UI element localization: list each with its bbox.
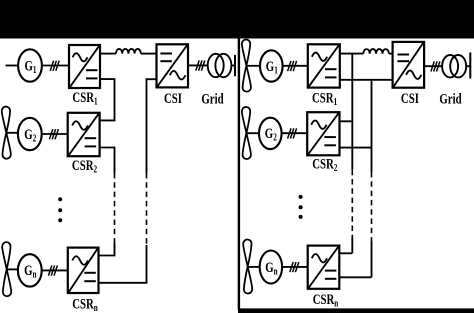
inductor (left dc link) xyxy=(116,49,141,54)
wind turbine blades (right row2) xyxy=(242,107,251,159)
wire: blades hub to Gn xyxy=(7,268,18,270)
vertical dots (left) xyxy=(58,197,62,222)
wire: stub left of G1 xyxy=(6,65,19,67)
converter CSR1 (right) xyxy=(308,44,340,87)
three-phase slashes (right grid) xyxy=(431,61,440,71)
wire: inductor to CSI xyxy=(141,53,157,55)
converter CSRn (right) xyxy=(308,246,340,289)
wire: CSRn top out to bus A (right) xyxy=(339,252,352,254)
wire: CSI bottom in down to CSRn bottom out (dashed middle) xyxy=(99,79,157,283)
grid bus bar (left) xyxy=(234,55,236,76)
wire: Gn to CSRn xyxy=(42,269,68,271)
three-phase slashes (left row2) xyxy=(49,129,58,139)
three-phase slashes (right row2) xyxy=(288,128,297,138)
wire: blades hub to G1 (right) xyxy=(246,65,260,67)
converter CSR2 (right) xyxy=(307,112,339,155)
label CSI (left) xyxy=(164,89,182,106)
wind turbine blades (right row1) xyxy=(242,40,251,92)
svg-text:Grid: Grid xyxy=(439,90,462,107)
three-phase slashes (left row3) xyxy=(48,266,57,276)
wire: blades hub to G2 (right) xyxy=(246,132,259,134)
label CSRn (left) xyxy=(72,295,98,313)
wire: G2 to CSR2 xyxy=(42,133,68,135)
right panel left border xyxy=(238,38,240,310)
generator Gn (right) xyxy=(260,251,282,284)
wire: CSRn bottom out to bus B (right) xyxy=(339,276,371,278)
wire: blades hub to G2 xyxy=(6,132,18,134)
label Grid (right) xyxy=(439,90,462,107)
wire: Gn to CSRn (right) xyxy=(282,266,308,268)
three-phase slashes (right row1) xyxy=(288,61,297,71)
generator Gn (left) xyxy=(18,254,42,286)
wire: CSR1 top out to inductor xyxy=(100,53,116,55)
inverter CSI (left) xyxy=(157,44,189,87)
inverter CSI (right) xyxy=(393,42,425,88)
generator G1 (right) xyxy=(260,50,283,81)
svg-text:CSR2: CSR2 xyxy=(72,156,97,175)
svg-text:CSR1: CSR1 xyxy=(312,89,337,108)
generator G2 (left) xyxy=(18,118,42,150)
converter CSR2 (left) xyxy=(68,113,100,156)
three-phase slashes (left grid) xyxy=(196,60,205,70)
wind turbine blades (right row3) xyxy=(243,239,252,293)
bottom black bar xyxy=(238,308,474,313)
wire: blades hub to Gn (right) xyxy=(248,266,260,268)
converter CSRn (left) xyxy=(68,248,99,293)
parallel dc bus A (right, top) with dashed middle xyxy=(351,54,353,254)
label CSI (right) xyxy=(401,89,419,106)
wire: CSR2 bottom out down to CSRn top in (dashed middle) xyxy=(99,148,115,256)
three-phase slashes (left row1) xyxy=(50,61,59,71)
wire: G1 to CSR1 (right) xyxy=(283,65,307,67)
wire: CSR1 bottom out down to CSR2 top in xyxy=(100,79,115,120)
generator G1 (left) xyxy=(18,49,42,81)
svg-text:CSI: CSI xyxy=(401,89,419,106)
vertical dots (right) xyxy=(299,195,303,219)
top black bar xyxy=(0,0,474,39)
svg-text:CSI: CSI xyxy=(164,89,182,106)
svg-text:CSR2: CSR2 xyxy=(312,155,337,174)
label Grid (left) xyxy=(201,90,224,107)
parallel dc bus B (right, bottom) with dashed middle xyxy=(371,80,373,277)
wire: CSR1 top out to inductor (right) xyxy=(340,53,364,55)
wire: CSR1 bottom out to CSI bottom in (right) xyxy=(340,79,393,81)
wire: G2 to CSR2 (right) xyxy=(282,132,306,134)
wind turbine blades (left row3) xyxy=(2,242,11,296)
converter CSR1 (left) xyxy=(69,45,100,88)
svg-text:CSR1: CSR1 xyxy=(72,88,97,107)
label CSR2 (right) xyxy=(312,155,337,174)
three-phase slashes (right row3) xyxy=(290,262,299,272)
label CSR2 (left) xyxy=(72,156,97,175)
grid transformer (left) xyxy=(208,54,232,77)
wind turbine blades (left row2) xyxy=(2,107,11,159)
generator G2 (right) xyxy=(259,118,282,149)
svg-text:Grid: Grid xyxy=(201,90,224,107)
wire: CSR2 bottom out to bus B (right) xyxy=(340,147,372,149)
wire: inductor to CSI (right) xyxy=(389,53,393,55)
grid transformer (right) xyxy=(442,55,466,77)
wire: transformer to grid bus (right) xyxy=(466,65,470,67)
wire: CSI out to transformer (right) xyxy=(424,65,442,67)
wire: transformer to grid bus (left) xyxy=(231,65,235,67)
label CSR1 (left) xyxy=(72,88,97,107)
label CSRn (right) xyxy=(313,290,339,309)
wire: CSI out to transformer xyxy=(188,64,208,66)
wire: G1 to CSR1 xyxy=(42,65,69,67)
label CSR1 (right) xyxy=(312,89,337,108)
wire: CSR2 top out to bus A (right) xyxy=(340,120,353,122)
grid bus bar (right) xyxy=(469,53,471,79)
inductor (right dc link) xyxy=(363,49,389,54)
